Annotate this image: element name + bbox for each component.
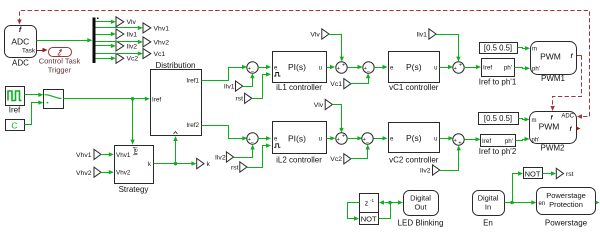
svg-text:PWM: PWM [540,52,561,62]
svg-text:k: k [207,161,211,168]
from tag Ilv1 [224,81,243,91]
svg-text:Ilv2: Ilv2 [215,154,226,161]
from tag Ilv2 row2 bottom [420,165,440,175]
goto tag Ilv2 [116,41,137,51]
svg-text:+: + [454,138,457,144]
svg-text:iL2 controller: iL2 controller [276,155,322,164]
PI(s) controller iL2 [273,122,327,154]
wire NOT to rst goto [543,171,557,175]
svg-text:Digital: Digital [410,193,431,202]
wire Vhv2 to Strategy [101,170,114,174]
wire const1 to PWM1 m [518,46,531,50]
svg-text:En: En [483,218,493,227]
Digital In label En [483,218,493,227]
svg-text:Vc2: Vc2 [330,156,342,163]
from tag Vlv row2 [314,99,333,109]
svg-text:LED Blinking: LED Blinking [398,218,444,227]
wire PI out row2 [327,136,336,140]
wire S4 to Iref-to-ph1 [464,65,482,69]
svg-text:PWM1: PWM1 [541,74,566,83]
svg-text:Vlv: Vlv [127,19,137,26]
svg-text:vC1 controller: vC1 controller [389,83,439,92]
Task port wire [37,48,48,52]
manual switch block [44,90,64,109]
P(s) controller vC2 [389,123,440,153]
svg-text:Iref2: Iref2 [186,122,199,129]
goto tag Vlv [116,17,137,27]
wire pulse to switch [25,93,44,97]
svg-text:Strategy: Strategy [119,185,149,194]
PI(s) controller iL1 [273,52,327,83]
svg-text:Iref: Iref [482,138,491,145]
from tag rst row1 [235,93,251,103]
svg-text:Iref to ph'2: Iref to ph'2 [479,147,517,156]
constant [0.5 0.5] 2 [479,113,519,125]
Strategy block [115,146,154,184]
Iref to ph'2 block [481,135,516,147]
svg-text:Vc1: Vc1 [154,51,166,58]
vC1 controller label [389,83,439,92]
wire demux to goto Vc2 [96,56,116,60]
svg-text:Ilv1: Ilv1 [224,84,235,91]
svg-text:ph': ph' [532,67,540,73]
svg-text:Powerstage: Powerstage [545,218,588,227]
unit delay z-1 block [360,194,379,213]
svg-text:Iref: Iref [483,65,492,72]
Strategy label [119,185,149,194]
wire Iref2 to sum [202,126,248,141]
Digital Out block [404,191,439,216]
wire Ilv2 to sum4 row2 [440,145,461,170]
svg-text:Vlv: Vlv [314,102,324,109]
svg-text:Trigger: Trigger [48,66,72,75]
svg-text:Vhv1: Vhv1 [116,152,131,159]
iL1 controller label [276,83,322,92]
demux bar [93,18,99,64]
svg-text:rst: rst [566,171,574,178]
goto tag Vc1 [143,49,165,59]
wire ph'2 to PWM2 [516,137,530,141]
Iref to ph'1 block [482,59,515,77]
wire branch to NOT [513,171,524,202]
wire S2 to S3 row1 [348,65,363,69]
from tag Vlv row1 [310,29,329,39]
wire Ilv1 to sum4 row1 [436,35,461,62]
wire NOT to junction [379,200,392,218]
svg-text:-1: -1 [370,198,375,203]
svg-text:P(s): P(s) [406,62,422,72]
wire Vc2 to sum row2 [351,145,370,159]
svg-text:Task: Task [22,48,36,55]
wire P out row1 [440,65,454,69]
svg-text:NOT: NOT [361,214,377,223]
function-call line PWM1 to PWM2 trigger [550,56,581,112]
wire rst to PI row1 [252,72,272,98]
PWM2 label [541,144,566,153]
vC2 controller label [389,155,439,164]
wire Vlv to sum row2 [333,105,344,133]
LED Blinking label [398,218,444,227]
wire ph'1 to PWM1 [515,66,531,70]
Control Task Trigger block [49,48,72,57]
function-call line ADC trigger (dashed) [17,11,589,119]
svg-text:m: m [532,118,537,124]
Iref to ph'2 label [479,147,517,156]
wire demux to goto Vhv2 [96,40,143,44]
svg-text:+: + [337,137,340,143]
svg-text:–: – [251,139,254,145]
svg-text:ph': ph' [504,65,512,72]
goto tag Vhv1 [143,23,169,33]
wire demux to goto Vc1 [96,51,143,55]
svg-text:PI(s): PI(s) [288,133,306,143]
svg-text:Vhv2: Vhv2 [116,170,131,177]
svg-text:Ilv2: Ilv2 [127,43,138,50]
svg-text:Iref: Iref [152,96,161,103]
svg-text:ADC: ADC [561,114,574,120]
wire branch to Strategy top [130,99,134,145]
svg-text:Vhv1: Vhv1 [154,25,170,32]
iL2 controller label [276,155,322,164]
svg-text:Iref: Iref [9,106,21,115]
goto tag rst [556,168,573,178]
svg-text:Powerstage: Powerstage [546,191,586,200]
wire Vhv1 to Strategy [101,152,114,156]
svg-text:[0.5 0.5]: [0.5 0.5] [484,43,512,52]
goto tag Vhv2 [143,37,169,47]
Iref to ph'1 label [479,77,517,86]
svg-text:+: + [459,63,462,69]
sum S4 row1 [453,62,464,73]
wire Vlv to sum row1 [329,35,345,62]
from tag Ilv1 row1 top [416,29,436,39]
from tag Vc2 [330,154,351,164]
wire S3 to P row1 [374,65,388,69]
from tag Vhv2 [76,167,101,177]
svg-text:Vhv1: Vhv1 [76,152,92,159]
svg-text:Ilv1: Ilv1 [127,31,138,38]
goto tag k [197,158,211,168]
ADC label [12,59,29,68]
wire S4 to Iref-to-ph2 [465,137,481,141]
wire Digital In to en [505,200,537,204]
svg-text:ph': ph' [532,137,540,143]
svg-text:Protection: Protection [549,200,583,209]
sum S3 row2 [362,133,373,146]
wire z-1 to NOT [348,203,360,221]
svg-text:Iref to ph'1: Iref to ph'1 [479,77,517,86]
constant C block [6,120,25,131]
svg-text:–: – [366,139,369,145]
svg-text:rst: rst [231,164,239,171]
svg-text:PWM: PWM [539,122,560,132]
svg-text:u: u [319,137,322,143]
svg-text:vC2 controller: vC2 controller [389,155,439,164]
sum S2 row1 [336,62,347,73]
svg-text:+: + [458,141,461,147]
sum S1 row1 [247,62,258,75]
from tag rst row2 [231,162,247,172]
svg-text:Digital: Digital [478,193,499,202]
svg-text:Vc2: Vc2 [127,56,139,63]
svg-text:Vhv2: Vhv2 [154,39,170,46]
svg-text:Ilv1: Ilv1 [416,31,427,38]
wire junction to Digital Out [391,200,404,204]
svg-text:PI(s): PI(s) [288,62,306,72]
svg-text:+: + [454,66,457,72]
Powerstage Protection block [537,188,600,215]
wire demux to goto Ilv2 [96,44,116,48]
Distribution block [151,70,202,136]
wire demux to goto Vhv1 [96,26,143,30]
goto tag Ilv1 [116,29,137,39]
from tag Vc1 [330,79,351,89]
svg-text:iL1 controller: iL1 controller [276,83,322,92]
svg-text:C: C [11,121,17,131]
from tag Vhv1 [76,149,101,159]
svg-text:ADC: ADC [12,59,29,68]
svg-text:ADC: ADC [11,36,29,46]
svg-text:In: In [485,202,491,211]
wire Vc1 to sum [351,73,371,83]
svg-text:Iref: Iref [134,147,140,156]
svg-text:+: + [337,66,340,72]
svg-text:u: u [319,65,322,71]
sum S4 row2 [453,134,464,147]
svg-text:NOT: NOT [525,170,541,179]
wire PI out row1 [327,65,336,69]
sum S3 row1 [363,62,374,75]
wire Ilv1 to sum [243,73,255,86]
svg-text:+: + [342,63,345,69]
Distribution label [155,61,195,70]
constant [0.5 0.5] 1 [480,43,518,54]
svg-text:+: + [342,134,345,140]
wire S2 to S3 row2 [347,136,363,140]
wire sum to PI e row2 [258,136,272,140]
wire Iref1 to sum [202,65,248,81]
svg-text:en: en [539,201,546,207]
P(s) controller vC1 [389,52,440,83]
sum S2 row2 [336,133,347,144]
wire S3 to P row2 [374,136,388,140]
svg-text:P(s): P(s) [406,133,422,143]
svg-text:Distribution: Distribution [155,61,195,70]
wire rst to PI row2 [247,143,272,167]
svg-text:z: z [365,201,369,208]
goto tag Vc2 [116,53,138,63]
wire demux to goto Ilv1 [96,32,116,36]
svg-text:Ilv2: Ilv2 [420,167,431,174]
Powerstage label [545,218,588,227]
wire Strategy k out [154,161,197,165]
pulse generator label [9,106,21,115]
ADC subsystem block [5,26,37,58]
svg-text:[0.5 0.5]: [0.5 0.5] [484,114,512,123]
svg-text:ph': ph' [505,138,513,145]
Digital In block [473,191,505,216]
PWM1 block [531,42,577,75]
PWM2 block [530,112,581,144]
wire switch to Distribution Iref [64,97,150,101]
svg-text:m: m [532,47,537,53]
svg-text:Vlv: Vlv [310,31,320,38]
svg-text:u: u [434,65,437,71]
svg-text:Vc1: Vc1 [330,81,342,88]
wire const2 to PWM2 m [519,117,530,121]
svg-text:Vhv2: Vhv2 [76,170,92,177]
wire branch to Distribution bottom [173,136,177,164]
Control Task Trigger label [39,57,81,75]
NOT block top [524,168,543,179]
pulse generator Iref block [6,87,25,106]
svg-text:Iref1: Iref1 [186,77,199,84]
svg-text:–: – [367,68,370,74]
sum S1 row2 [247,133,258,146]
wire ADC out to demux [37,38,93,42]
svg-text:rst: rst [235,96,243,103]
wire Ilv2 to sum row2 [234,145,255,158]
svg-text:Out: Out [414,202,427,211]
NOT block feedback [360,213,379,225]
PWM1 label [541,74,566,83]
wire C to switch [25,100,44,124]
wire P out row2 [440,136,454,140]
svg-text:PWM2: PWM2 [541,144,566,153]
wire demux to goto Vlv [96,20,116,24]
from tag Ilv2 row2 [215,152,234,162]
wire sum to PI e row1 [258,65,272,69]
svg-text:u: u [434,137,437,143]
svg-text:Control Task: Control Task [39,57,81,66]
